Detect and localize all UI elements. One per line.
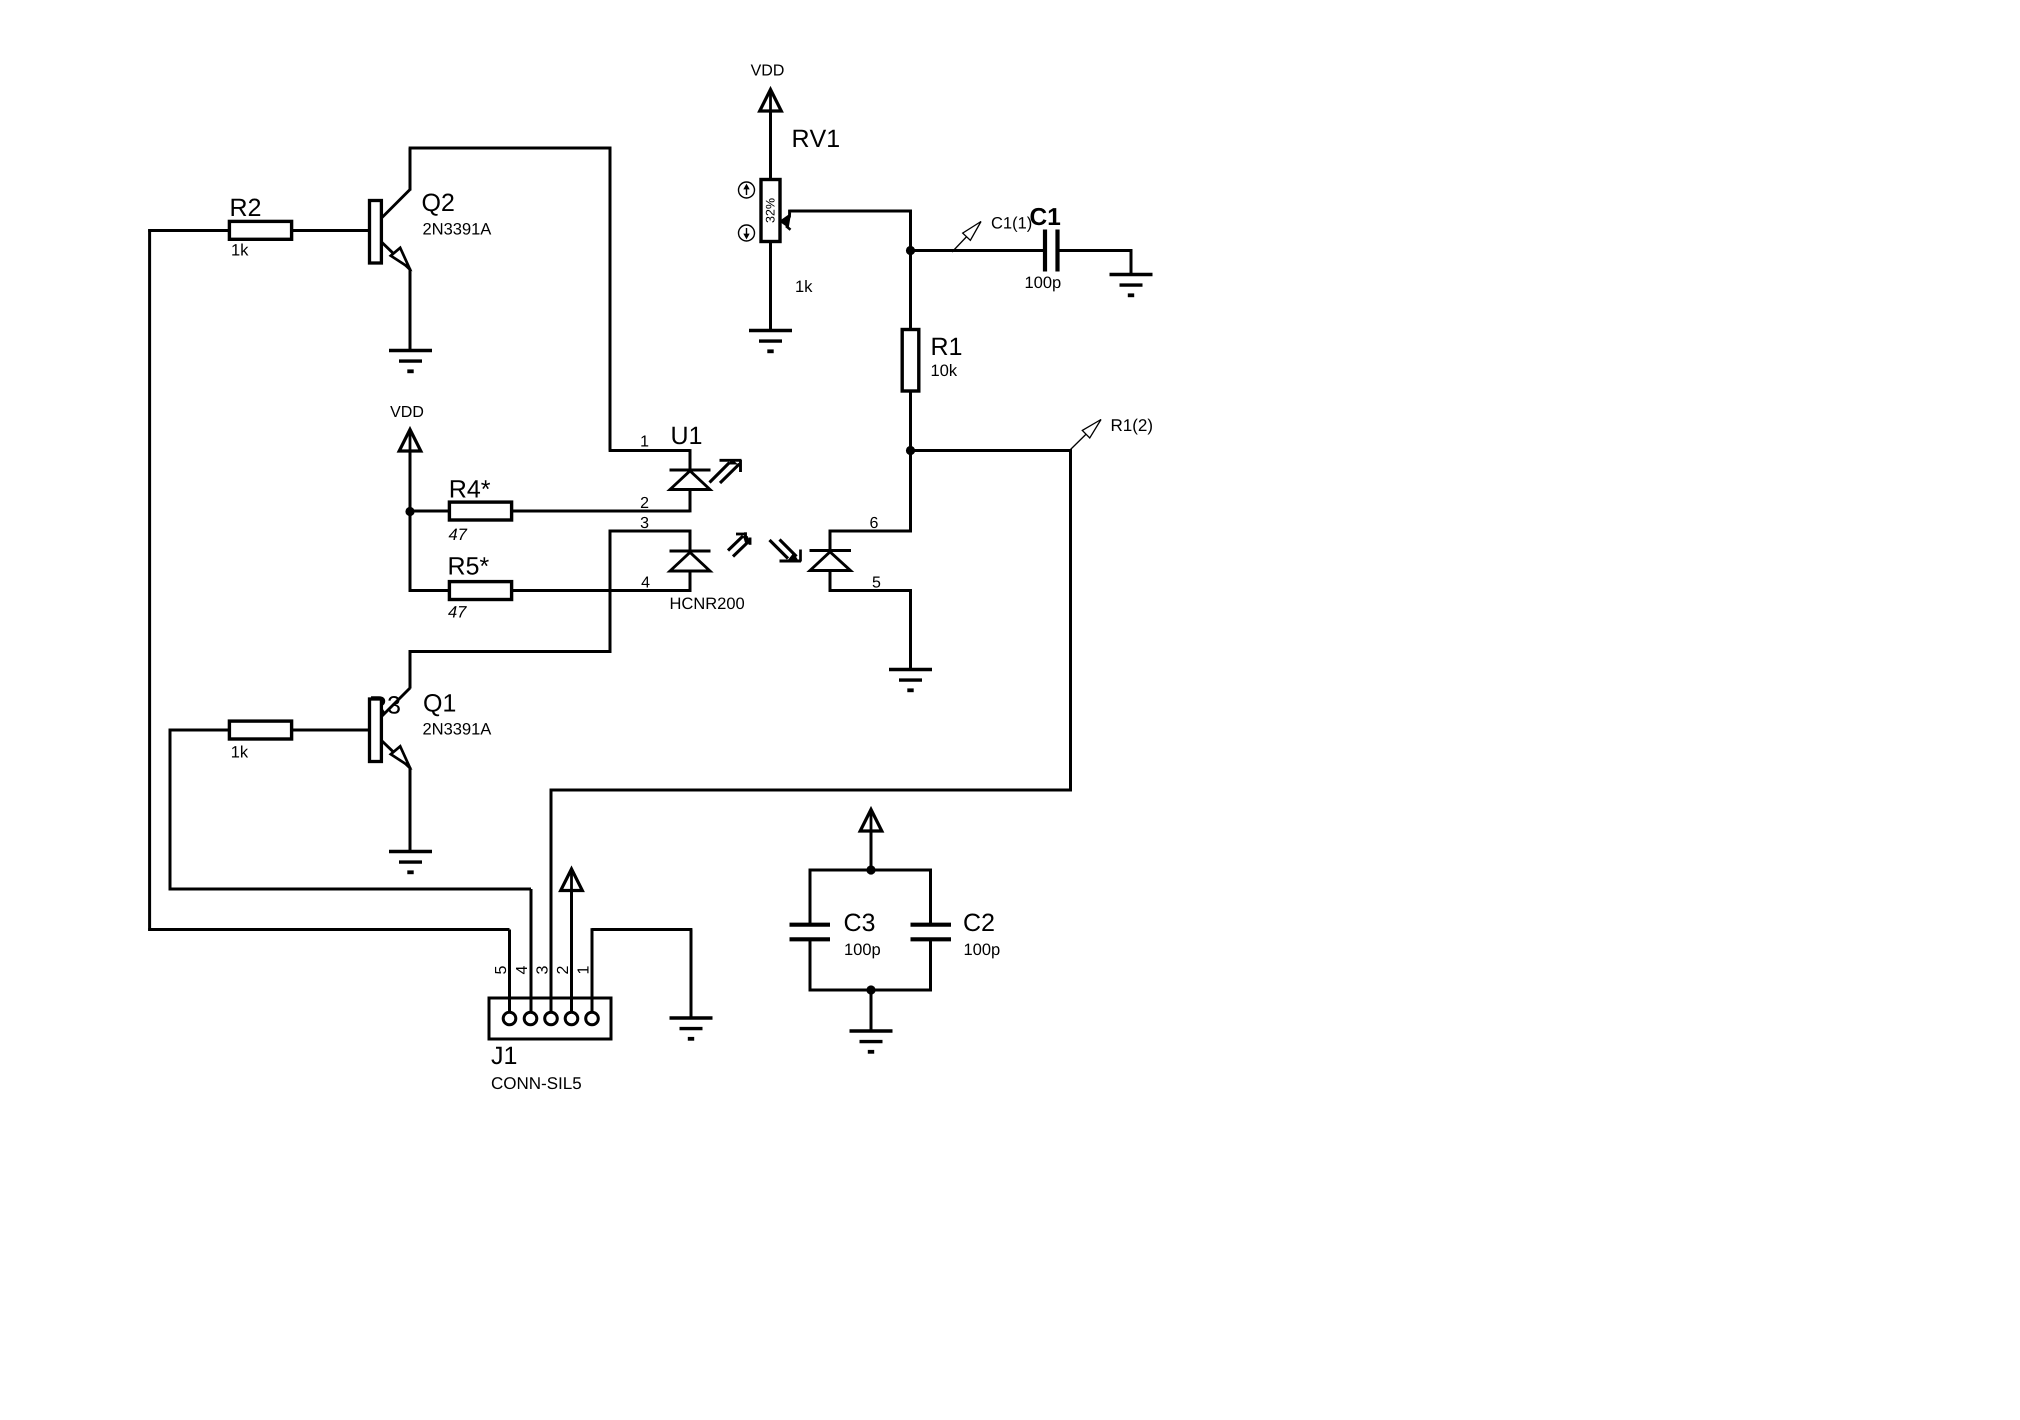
wire Q1 collector vertical bbox=[409, 650, 412, 688]
wire R3 net horizontal to J1 pin4 bbox=[169, 888, 531, 891]
wire J1 pin5 vertical bbox=[508, 930, 511, 1019]
wire C2C3 VDD vertical bbox=[870, 812, 873, 871]
wire R2 left horizontal bbox=[148, 229, 232, 232]
wire C3 bottom vertical bbox=[809, 941, 812, 992]
wire VDD rail vertical at R4/R5 bbox=[409, 431, 412, 592]
wire Q2 collector top horizontal bbox=[409, 147, 612, 150]
wire Q1 collector horizontal bbox=[409, 650, 612, 653]
resistor R3 bbox=[229, 721, 291, 739]
power VDD label above RV1 bbox=[751, 64, 784, 75]
wire RV1 wiper horizontal bbox=[790, 210, 912, 213]
opto LED1 (pins 1-2) bbox=[670, 469, 711, 472]
resistor R1 (vertical) bbox=[902, 330, 919, 392]
wire Q1 emitter vertical bbox=[409, 768, 412, 852]
opto U1 pin 2 number bbox=[641, 497, 648, 508]
potentiometer RV1 wiper arrow bbox=[788, 210, 791, 218]
wire J1 pin1 horizontal bbox=[592, 928, 692, 931]
resistor R1 value 10k bbox=[932, 364, 957, 376]
junction node C2C3 bottom bbox=[866, 985, 875, 994]
wire R4 left to VDD node bbox=[409, 510, 451, 513]
wire R5 left horizontal bbox=[409, 589, 451, 592]
capacitor C3 label bbox=[845, 914, 875, 932]
wire pin6 node vertical bbox=[909, 449, 912, 532]
resistor R1 label bbox=[933, 338, 962, 355]
connector J1 label bbox=[491, 1047, 516, 1064]
potentiometer RV1 label bbox=[794, 130, 839, 147]
wire RV1 wiper vertical bbox=[909, 210, 912, 252]
resistor R4 bbox=[449, 502, 511, 520]
wire LED2 cathode vertical bbox=[689, 570, 692, 592]
opto photodiode (pins 6-5) bbox=[810, 549, 852, 552]
transistor Q2 label bbox=[423, 194, 454, 216]
connector J1 body bbox=[489, 998, 611, 1039]
wire C2C3 ground vertical bbox=[870, 989, 873, 1031]
wire node to C1 horizontal bbox=[909, 249, 1044, 252]
wire U1 pin5 horizontal bbox=[829, 589, 912, 592]
transistor Q2 value 2N3391A bbox=[423, 223, 491, 235]
wire C3 top vertical bbox=[809, 869, 812, 924]
power VDD arrow above J1 pin2 bbox=[561, 869, 583, 891]
wire J1 pin2 vertical bbox=[570, 871, 573, 1019]
node R1(2) pointer arrow bbox=[1071, 420, 1102, 450]
transistor Q1 bbox=[370, 688, 411, 769]
connector J1 pin 1 number bbox=[577, 966, 588, 973]
wire R3 left horizontal bbox=[169, 729, 232, 732]
wire LED1 anode vertical bbox=[689, 449, 692, 471]
power VDD arrow above RV1 bbox=[760, 90, 782, 112]
wire RV1 top vertical bbox=[769, 92, 772, 181]
ground under RV1 bbox=[749, 331, 792, 352]
power VDD arrow above C2/C3 bbox=[860, 810, 882, 832]
wire U1 pin2 horizontal to R4 bbox=[510, 510, 690, 513]
junction node RV1 wiper / R1 / C1 bbox=[906, 246, 915, 255]
wire R1(2) net bottom horizontal bbox=[550, 789, 1072, 792]
wire C2 top vertical bbox=[929, 869, 932, 924]
node C1(1) pointer arrow bbox=[952, 222, 981, 253]
potentiometer RV1 percent text bbox=[766, 198, 775, 222]
wire U1 pin6 horizontal bbox=[829, 530, 912, 533]
opto U1 pin 4 number bbox=[641, 576, 649, 587]
ground under photodiode pin5 bbox=[889, 670, 932, 691]
ground under Q2 emitter bbox=[389, 351, 432, 372]
wire R1 top vertical bbox=[909, 249, 912, 331]
wire C1 to ground horizontal bbox=[1059, 249, 1133, 252]
wire Q2 emitter vertical bbox=[409, 270, 412, 351]
connector J1 pin 4 number bbox=[516, 966, 527, 974]
opto U1 pin 5 number bbox=[873, 576, 881, 587]
wire C2C3 top horizontal bbox=[809, 869, 932, 872]
capacitor C1 label bbox=[1031, 208, 1061, 225]
wire R1 bottom vertical bbox=[909, 390, 912, 452]
capacitor C1 bbox=[1043, 230, 1047, 272]
wire R1(2) net vertical bbox=[1069, 449, 1072, 791]
transistor Q1 value 2N3391A bbox=[423, 723, 491, 735]
wire U1 pin1 vertical bbox=[609, 147, 612, 451]
capacitor C2 label bbox=[964, 914, 993, 932]
opto U1 pin 1 number bbox=[641, 435, 648, 446]
wire C2 bottom vertical bbox=[929, 941, 932, 992]
wire J1 pin3 vertical bbox=[550, 789, 553, 1019]
node R1(2) label bbox=[1112, 419, 1152, 435]
resistor R5 label bbox=[450, 557, 489, 574]
capacitor C1 value 100p bbox=[1026, 276, 1061, 291]
wire C2C3 bottom horizontal bbox=[809, 989, 932, 992]
wire R2 net bottom horizontal to J1 pin5 bbox=[148, 928, 509, 931]
opto LED1 emission arrows bbox=[720, 459, 742, 462]
opto U1 pin 3 number bbox=[641, 517, 649, 528]
wire R3 right to Q1 base bbox=[288, 729, 371, 732]
ground right of C1 bbox=[1110, 275, 1153, 296]
resistor R3 label (partially hidden) bbox=[371, 696, 400, 714]
wire R1 node to R1(2) horizontal bbox=[911, 449, 1072, 452]
wire photodiode bottom vertical bbox=[829, 570, 832, 592]
wire U1 pin3 horizontal bbox=[609, 530, 692, 533]
resistor R5 value 47 bbox=[448, 606, 467, 617]
potentiometer RV1 value 1k bbox=[796, 280, 812, 292]
transistor Q1 label bbox=[424, 694, 455, 716]
wire U1 pin1 horizontal bbox=[609, 449, 690, 452]
wire LED2 anode vertical bbox=[689, 530, 692, 552]
wire R5 right / U1 pin4 horizontal bbox=[510, 589, 691, 592]
resistor R2 label bbox=[232, 199, 261, 216]
connector J1 pin 2 number bbox=[557, 966, 568, 973]
wire J1 pin1 vertical bbox=[591, 928, 594, 1018]
opto LED2 (pins 3-4) bbox=[670, 550, 711, 553]
wire pin5 ground vertical bbox=[909, 589, 912, 669]
resistor R3 value 1k bbox=[232, 746, 248, 758]
wire J1 pin1 ground vertical bbox=[690, 930, 693, 1019]
wire Q2 collector vertical bbox=[409, 148, 412, 191]
potentiometer RV1 body bbox=[761, 180, 780, 242]
potentiometer RV1 down adjust circle bbox=[739, 225, 755, 241]
wire U1 pin3 vertical down bbox=[609, 530, 612, 653]
wire J1 pin4 vertical bbox=[530, 889, 533, 1019]
wire LED1 cathode vertical bbox=[689, 489, 692, 513]
resistor R5 bbox=[449, 582, 511, 600]
potentiometer RV1 up adjust circle bbox=[739, 182, 755, 198]
wire RV1 bottom vertical bbox=[769, 240, 772, 331]
wire R2 net vertical left rail bbox=[148, 229, 151, 931]
wire R3 net vertical bbox=[169, 729, 172, 891]
op-to U1 label bbox=[672, 427, 701, 444]
ground under C2/C3 bbox=[850, 1031, 893, 1052]
junction node at R4/VDD bbox=[405, 507, 414, 516]
wire R2 right to Q2 base bbox=[288, 229, 371, 232]
junction node C2C3 top bbox=[866, 865, 875, 874]
wire C1 ground vertical bbox=[1130, 249, 1133, 273]
opto photodiode receiving arrows bbox=[770, 540, 789, 559]
power VDD arrow above R4 node bbox=[399, 430, 421, 452]
opto U1 pin 6 number bbox=[870, 517, 877, 528]
capacitor C3 value 100p bbox=[845, 943, 880, 958]
opto LED2 emission arrows bbox=[736, 533, 746, 536]
transistor Q2 bbox=[370, 190, 411, 271]
node C1(1) label bbox=[992, 217, 1031, 232]
resistor R2 bbox=[229, 221, 291, 239]
capacitor C3 bbox=[790, 923, 831, 927]
connector J1 pin circles bbox=[503, 1012, 516, 1025]
capacitor C2 bbox=[911, 923, 952, 927]
connector J1 pin 3 number bbox=[536, 966, 547, 974]
resistor R2 value 1k bbox=[232, 244, 248, 256]
connector J1 value CONN-SIL5 bbox=[492, 1077, 581, 1089]
ground under Q1 emitter bbox=[389, 852, 432, 873]
resistor R4 value 47 bbox=[449, 529, 468, 540]
power VDD label above R4 node bbox=[390, 406, 423, 417]
wire photodiode top vertical bbox=[829, 530, 832, 552]
connector J1 pin 5 number bbox=[495, 966, 506, 974]
resistor R4 label bbox=[451, 480, 490, 497]
junction node R1 / pin6 / R1(2) bbox=[906, 446, 915, 455]
ground right of J1 (pin1) bbox=[670, 1018, 713, 1039]
capacitor C2 value 100p bbox=[965, 943, 1000, 958]
opto U1 value HCNR200 bbox=[671, 597, 744, 609]
